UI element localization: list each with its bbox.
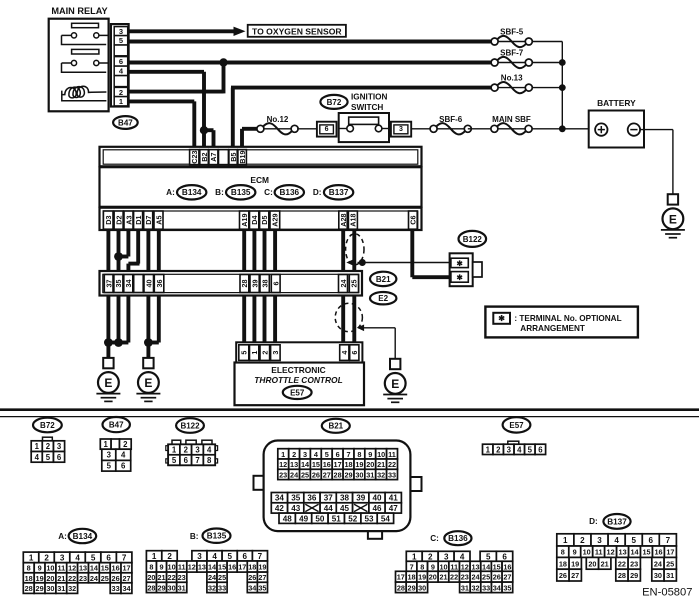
relay pin 5 [114,36,128,45]
svg-text:SWITCH: SWITCH [351,103,383,112]
svg-text:6: 6 [502,552,507,561]
svg-text:20: 20 [366,460,374,469]
svg-text:23: 23 [461,573,469,582]
svg-text:2: 2 [580,536,585,545]
svg-text:13: 13 [79,564,87,573]
option arrow wire to B122 [358,262,452,264]
svg-text:3: 3 [507,445,512,454]
svg-text:2: 2 [292,450,296,459]
svg-text:✱: ✱ [456,259,463,268]
svg-text:33: 33 [218,583,226,592]
svg-text:45: 45 [340,504,350,513]
relay pin blank [114,45,128,56]
ground E left [103,358,113,368]
label E2 oval [370,292,396,304]
terminal 28 [240,275,249,293]
svg-text:21: 21 [377,460,385,469]
svg-text:28: 28 [25,584,33,593]
bus node SBF-7 [559,59,566,66]
svg-text:6: 6 [325,126,329,133]
svg-text:15: 15 [493,562,501,571]
svg-text:C:: C: [264,188,273,197]
ground E battery [668,194,678,204]
svg-text:5: 5 [325,450,329,459]
svg-text:29: 29 [157,583,165,592]
svg-text:EN-05807: EN-05807 [642,586,692,598]
svg-text:B134: B134 [73,532,93,541]
svg-text:20: 20 [46,574,54,583]
terminal 24 [339,275,348,293]
svg-text:1: 1 [563,536,568,545]
svg-text:37: 37 [324,494,334,503]
svg-text:26: 26 [248,573,256,582]
ECM bottom connector row [100,208,422,230]
svg-text:E57: E57 [509,421,524,430]
wire 39 to throttle 1 [252,292,256,346]
svg-text:7: 7 [195,456,199,465]
svg-text:37: 37 [105,280,114,288]
svg-text:ARRANGEMENT: ARRANGEMENT [520,324,585,333]
junction node A3/D2 [114,252,123,261]
svg-text:MAIN SBF: MAIN SBF [492,115,531,124]
ECM pin A7 [209,150,218,165]
relay pin 2 [114,87,128,96]
svg-text:17: 17 [397,573,405,582]
svg-text:18: 18 [407,573,415,582]
svg-text:A3: A3 [124,215,133,224]
svg-text:B122: B122 [180,421,200,430]
svg-text:11: 11 [450,562,458,571]
label B72 oval [320,95,347,109]
junction node 35 [114,338,123,347]
terminal blank [134,275,144,293]
svg-text:6: 6 [538,445,543,454]
svg-text:3: 3 [107,451,112,460]
svg-text:15: 15 [101,564,109,573]
svg-text:7: 7 [666,536,671,545]
svg-text:36: 36 [307,494,317,503]
svg-text:6: 6 [243,552,248,561]
ECM pin D5 [260,211,269,229]
svg-text:7: 7 [258,552,263,561]
svg-text:54: 54 [381,514,391,523]
svg-text:5: 5 [172,456,177,465]
wire A29 to 6 [273,228,277,276]
svg-text:25: 25 [350,280,359,288]
svg-text:1: 1 [172,446,177,455]
svg-text:16: 16 [228,563,236,572]
svg-text:30: 30 [654,571,662,580]
svg-text:28: 28 [618,571,626,580]
svg-text:E: E [104,376,112,390]
wire D4 to 39 [252,228,256,276]
bus node No.13 [559,84,566,91]
svg-text:13: 13 [471,562,479,571]
svg-text:C6: C6 [409,215,418,224]
svg-text:21: 21 [601,559,609,568]
svg-text:10: 10 [439,562,447,571]
svg-text:E: E [391,377,399,391]
svg-text:3: 3 [197,552,202,561]
svg-text:3: 3 [444,552,449,561]
svg-text:A:: A: [58,532,67,541]
svg-text:5: 5 [107,462,112,471]
wire C6 down to B122 [410,228,414,277]
ECM pin A19 [240,211,249,229]
svg-text:34: 34 [124,280,133,288]
svg-text:4: 4 [614,536,619,545]
svg-text:18: 18 [248,563,256,572]
svg-text:1: 1 [412,552,417,561]
svg-text:1: 1 [35,442,40,451]
svg-text:10: 10 [168,563,176,572]
svg-text:30: 30 [355,470,363,479]
option arrow wire to ground [364,327,396,329]
svg-text:26: 26 [112,574,120,583]
svg-text:20: 20 [588,559,596,568]
svg-text:34: 34 [248,583,257,592]
throttle pin 2 [260,345,270,361]
dashed option ellipse throttle 4/6 [335,303,362,331]
svg-text:12: 12 [188,563,196,572]
svg-text:23: 23 [279,470,287,479]
svg-text:D3: D3 [104,215,113,224]
svg-text:11: 11 [178,563,186,572]
svg-text:B47: B47 [118,118,133,127]
svg-text:1: 1 [486,445,491,454]
svg-text:D:: D: [313,188,322,197]
svg-text:A19: A19 [240,214,249,227]
svg-text:9: 9 [38,564,42,573]
to oxygen sensor box [248,25,346,37]
svg-text:13: 13 [198,563,206,572]
ECM pin B2 [200,150,209,165]
svg-text:39: 39 [356,494,366,503]
svg-text:25: 25 [101,574,109,583]
svg-text:6: 6 [336,450,340,459]
svg-text:1: 1 [281,450,285,459]
svg-text:B137: B137 [329,188,349,197]
svg-text:25: 25 [301,470,309,479]
svg-text:D5: D5 [260,215,269,224]
svg-text:5: 5 [119,36,123,45]
battery ground wire [640,129,673,131]
svg-text:28: 28 [397,583,405,592]
relay coil [62,91,107,101]
ground E second [143,358,153,368]
svg-text:14: 14 [90,564,99,573]
svg-text:8: 8 [561,548,565,557]
svg-text:6: 6 [272,282,281,286]
svg-text:8: 8 [420,562,424,571]
svg-text:B135: B135 [231,188,251,197]
ECM pin A3 [124,211,133,229]
svg-text:20: 20 [429,573,437,582]
svg-text:41: 41 [389,494,399,503]
svg-text:1: 1 [29,553,34,562]
svg-text:29: 29 [344,470,352,479]
throttle pin 4 [340,345,349,361]
wire ignition connector 3 to SBF-6 [411,128,432,130]
svg-text:25: 25 [218,573,226,582]
svg-text:B137: B137 [607,517,627,526]
svg-text:2: 2 [496,445,501,454]
svg-text:29: 29 [36,584,44,593]
svg-text:24: 24 [471,573,480,582]
svg-text:5: 5 [46,453,51,462]
connector view E57 [503,417,531,432]
svg-text:5: 5 [91,553,96,562]
svg-text:1: 1 [119,97,123,106]
battery minus terminal [628,123,640,135]
connector B122 [459,231,487,247]
svg-text:3: 3 [597,536,602,545]
svg-text:22: 22 [168,573,176,582]
svg-text:: TERMINAL No. OPTIONAL: : TERMINAL No. OPTIONAL [514,314,621,323]
svg-text:15: 15 [218,563,226,572]
wire 35 joins ground [117,292,121,343]
svg-text:16: 16 [112,564,120,573]
svg-text:8: 8 [207,456,212,465]
ECM pin blank [219,150,229,165]
svg-text:21: 21 [157,573,165,582]
ECM pin A5 [154,211,163,229]
separator lines [0,408,699,411]
svg-text:7: 7 [410,562,414,571]
svg-text:9: 9 [431,562,435,571]
relay contact bar 1 [72,23,99,27]
ignition connector 3 [391,122,411,137]
svg-text:4: 4 [460,552,465,561]
svg-text:2: 2 [46,442,51,451]
svg-text:27: 27 [503,573,511,582]
svg-text:40: 40 [372,494,382,503]
svg-text:D1: D1 [134,215,143,224]
svg-text:6: 6 [119,57,123,66]
svg-text:B72: B72 [327,98,342,107]
bus node MAIN SBF [559,125,566,132]
svg-text:16: 16 [503,562,511,571]
svg-text:8: 8 [27,564,31,573]
svg-text:49: 49 [299,514,309,523]
svg-text:18: 18 [25,574,33,583]
wire relay pin5 to fuse SBF-5 [129,40,492,44]
label B47 oval [113,116,138,129]
terminal 34 [124,275,133,293]
svg-text:9: 9 [573,548,577,557]
svg-text:B5: B5 [229,152,238,161]
ECM pin A28 [339,211,347,229]
terminal 36 [154,275,164,293]
svg-text:30: 30 [418,583,426,592]
svg-text:12: 12 [68,564,76,573]
connector view B72 [33,418,62,433]
svg-text:30: 30 [168,583,176,592]
svg-text:31: 31 [461,583,469,592]
svg-text:4: 4 [212,552,217,561]
svg-text:3: 3 [271,351,280,355]
svg-text:B19: B19 [238,151,247,164]
svg-text:7: 7 [346,450,350,459]
ECM pin D3 [103,211,113,229]
svg-text:28: 28 [240,280,249,288]
svg-text:3: 3 [399,126,403,133]
svg-text:35: 35 [114,280,123,288]
svg-text:23: 23 [630,559,638,568]
svg-text:17: 17 [238,563,246,572]
svg-text:29: 29 [630,571,638,580]
svg-text:17: 17 [334,460,342,469]
svg-text:22: 22 [388,460,396,469]
wire relay pin1 down to ECM C23 [129,99,195,103]
svg-text:4: 4 [340,351,349,355]
svg-text:32: 32 [471,583,479,592]
wire relay pin2 up to pin6 wire junction [129,90,224,94]
wire 36 joins ground [157,292,161,343]
svg-text:2: 2 [261,351,270,355]
svg-text:ECM: ECM [250,175,269,185]
svg-text:E2: E2 [378,294,388,303]
svg-text:B134: B134 [182,188,202,197]
svg-text:TO OXYGEN SENSOR: TO OXYGEN SENSOR [252,26,342,36]
svg-text:51: 51 [332,514,342,523]
svg-text:43: 43 [291,504,301,513]
svg-text:16: 16 [323,460,331,469]
svg-text:31: 31 [57,584,65,593]
terminal 6 [271,275,280,293]
svg-text:26: 26 [493,573,501,582]
junction node option arrow [359,259,366,266]
svg-text:2: 2 [167,552,172,561]
svg-text:1: 1 [104,440,109,449]
svg-text:11: 11 [595,548,603,557]
svg-text:6: 6 [350,351,359,355]
wire 28 to throttle 5 [242,292,246,346]
ECM pin C23 [190,150,199,165]
intermediate connector row [100,271,363,296]
svg-text:22: 22 [68,574,76,583]
wire D2 to 35 [117,228,121,276]
wire 37 to ground [106,292,110,359]
wire relay pin6 to fuse SBF-7 [129,61,492,65]
wire No.12 to ignition connector 6 [297,128,318,130]
power bus vertical at right [532,41,562,43]
svg-text:30: 30 [46,584,54,593]
svg-text:B21: B21 [328,422,343,431]
svg-text:19: 19 [418,573,426,582]
svg-text:B21: B21 [376,275,391,284]
svg-text:34: 34 [493,583,502,592]
wire A3 joins D2 [126,228,130,257]
svg-text:14: 14 [482,562,491,571]
svg-text:26: 26 [559,571,567,580]
connector view B122 [176,418,204,433]
svg-text:31: 31 [366,470,374,479]
svg-text:15: 15 [312,460,320,469]
svg-text:24: 24 [654,559,663,568]
ECM pin D2 [114,211,123,229]
svg-text:25: 25 [666,559,674,568]
svg-text:22: 22 [450,573,458,582]
svg-text:31: 31 [178,583,186,592]
ECM pin B5 [229,150,237,165]
wire A28 to 24 [341,228,345,276]
dashed option ellipse A18 [346,234,364,265]
svg-text:B135: B135 [207,532,227,541]
svg-text:E: E [144,376,152,390]
svg-text:9: 9 [159,563,163,572]
svg-text:38: 38 [260,280,269,288]
svg-text:3: 3 [57,442,62,451]
wire 6 to throttle 3 [273,292,277,346]
svg-text:34: 34 [275,494,285,503]
svg-text:A18: A18 [349,214,358,227]
svg-text:6: 6 [649,536,654,545]
svg-text:28: 28 [147,583,155,592]
svg-text:11: 11 [57,564,65,573]
svg-text:B47: B47 [109,421,124,430]
svg-text:C23: C23 [190,151,199,164]
svg-text:4: 4 [121,451,126,460]
svg-text:6: 6 [57,453,62,462]
svg-text:5: 5 [528,445,533,454]
svg-text:12: 12 [461,562,469,571]
B122 terminal star top [451,258,468,267]
svg-text:19: 19 [571,559,579,568]
svg-text:A7: A7 [209,152,218,161]
label E57 oval [283,386,312,399]
svg-text:B:: B: [215,188,224,197]
svg-text:40: 40 [145,280,154,288]
terminal 39 [250,275,259,293]
B122 terminal star bottom [451,272,468,283]
svg-text:27: 27 [571,571,579,580]
svg-text:42: 42 [275,504,285,513]
svg-text:D7: D7 [144,215,153,224]
svg-text:32: 32 [208,583,216,592]
svg-text:35: 35 [291,494,301,503]
relay pin 1 [114,97,128,106]
svg-text:2: 2 [119,88,123,97]
wire 34 joins ground [126,292,130,343]
svg-text:A29: A29 [271,214,280,227]
wire relay pin3 to oxygen sensor arrow [129,29,237,33]
svg-text:18: 18 [344,460,352,469]
svg-text:4: 4 [517,445,522,454]
wire A18 to 25 [352,228,356,276]
ignition switch box [339,113,389,142]
svg-text:44: 44 [324,504,334,513]
svg-text:4: 4 [75,553,80,562]
relay switch 1 [62,34,72,36]
svg-text:39: 39 [250,280,259,288]
svg-text:13: 13 [290,460,298,469]
svg-text:11: 11 [388,450,396,459]
svg-text:15: 15 [642,548,650,557]
relay contact bar 2 [72,49,99,54]
svg-text:35: 35 [258,583,266,592]
svg-text:E57: E57 [290,388,305,397]
svg-text:12: 12 [279,460,287,469]
svg-text:10: 10 [583,548,591,557]
ECM pin A29 [270,211,280,229]
wire 25 to throttle 6 [352,292,356,346]
wire A5 to 36 [157,228,161,276]
svg-text:MAIN RELAY: MAIN RELAY [51,6,107,16]
svg-text:24: 24 [339,280,348,288]
svg-text:21: 21 [439,573,447,582]
svg-text:23: 23 [79,574,87,583]
